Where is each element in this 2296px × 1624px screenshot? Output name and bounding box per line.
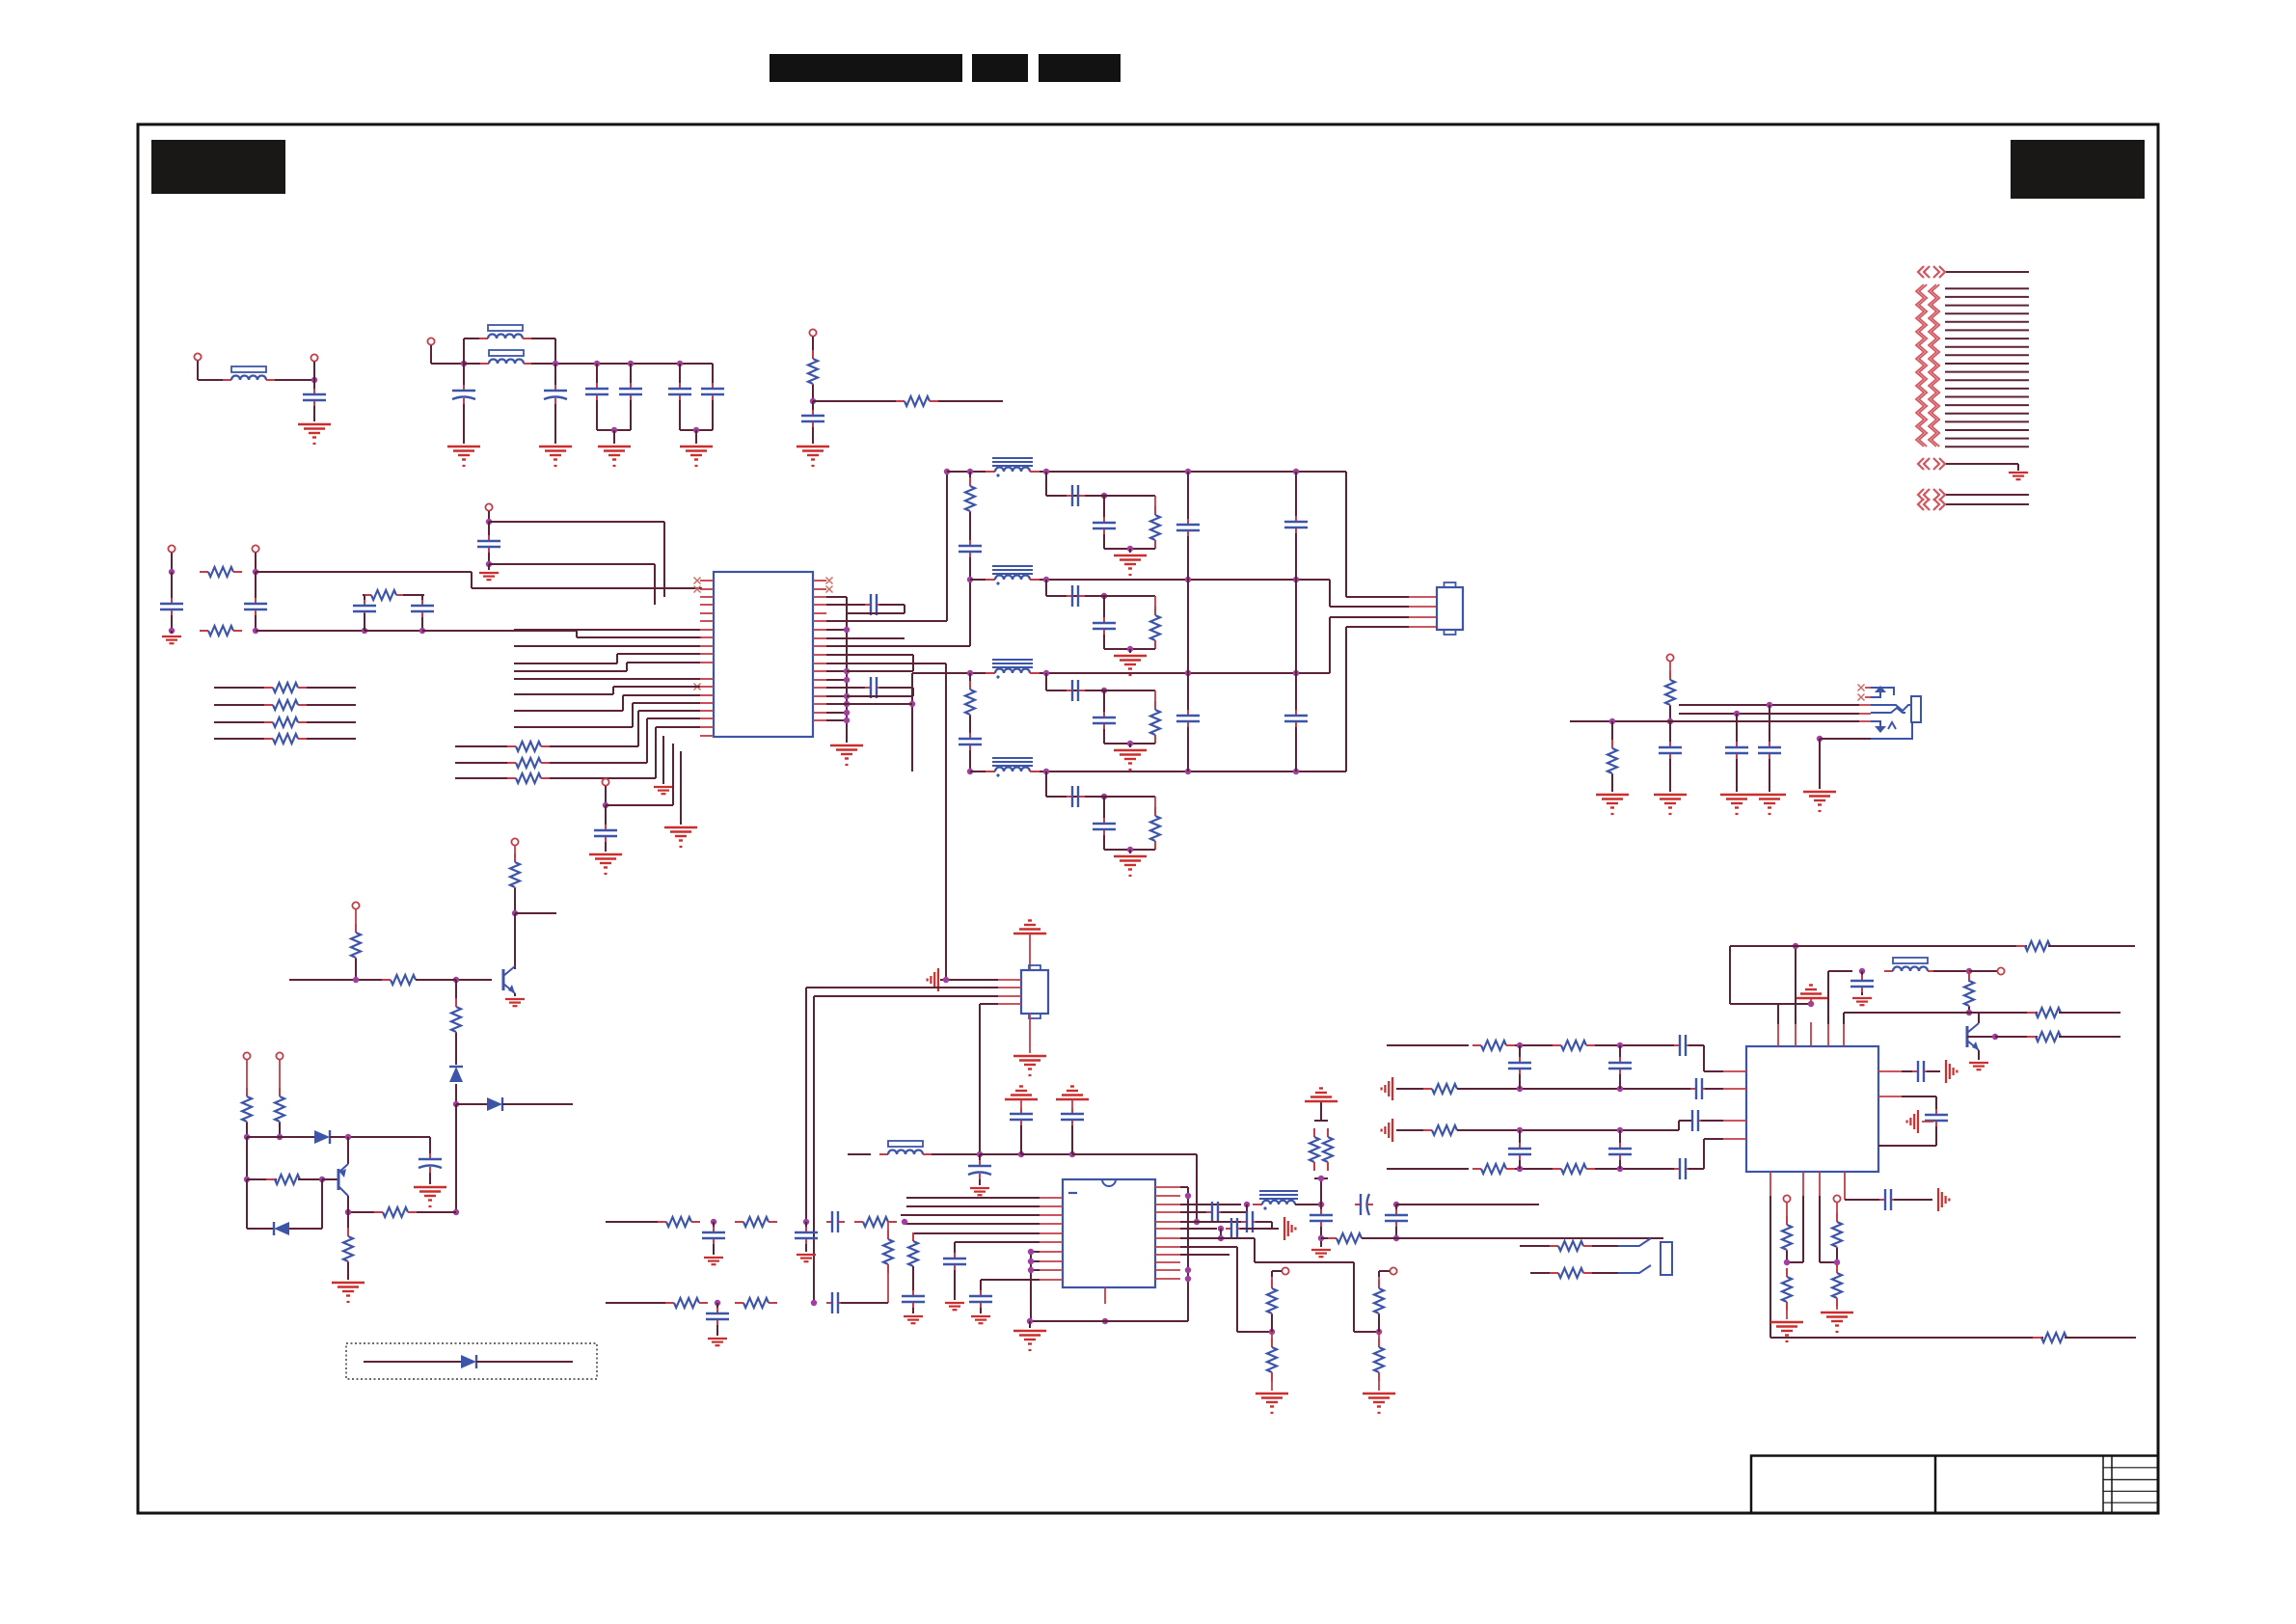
pin (700, 726, 714, 728)
pin (813, 719, 826, 721)
pin (1155, 1269, 1180, 1271)
resistor R57 (2033, 1337, 2041, 1339)
wire (1129, 549, 1131, 553)
ground (162, 636, 181, 637)
dotted option box (346, 1343, 597, 1379)
bus ripple column 1 (1916, 284, 1924, 447)
wire (1703, 1139, 1705, 1169)
node (461, 361, 467, 366)
wire (713, 1244, 715, 1255)
pin (1723, 1088, 1746, 1090)
ground (2009, 472, 2028, 474)
ground (1720, 794, 1753, 796)
wire (613, 430, 615, 444)
wire (455, 980, 457, 1006)
IC U2 (1063, 1179, 1155, 1287)
pin (700, 717, 714, 719)
jack J2 contact 2 (1618, 1265, 1651, 1273)
node (1817, 736, 1823, 742)
node (1793, 943, 1798, 949)
node (1767, 702, 1772, 708)
node (711, 1219, 716, 1225)
node (967, 769, 973, 774)
jack J1 switch contact 3 (1871, 721, 1880, 726)
wire (1320, 1204, 1322, 1209)
wire (637, 711, 639, 746)
resistor R33 (912, 1232, 914, 1241)
wire (1103, 729, 1105, 744)
capacitor C22 (1103, 517, 1105, 523)
wire (805, 1244, 807, 1252)
pin (1155, 1211, 1180, 1213)
capacitor C54 (1619, 1143, 1621, 1149)
pin (813, 629, 826, 631)
wire (1254, 1238, 1256, 1262)
node (1966, 968, 1972, 974)
node (1185, 1193, 1191, 1199)
wire (1103, 496, 1105, 517)
pin (998, 979, 1021, 981)
capacitor C14 (605, 825, 607, 830)
ground (598, 446, 631, 447)
resistor R31 (735, 1221, 743, 1223)
terminal P6 (168, 545, 175, 552)
wire (1703, 1045, 1705, 1071)
wire (981, 1279, 1040, 1281)
wire (695, 430, 697, 444)
wire (980, 1003, 998, 1005)
resistor R38 (1313, 1128, 1315, 1137)
capacitor C39 (716, 1308, 718, 1313)
capacitor C17 (969, 540, 971, 546)
jack J1 switch contact 4 (1888, 722, 1896, 729)
pin (1409, 616, 1437, 618)
wire (2017, 464, 2019, 471)
wire (422, 630, 577, 632)
wire (1271, 1314, 1273, 1332)
ground (539, 446, 572, 447)
off-page connector C (1918, 489, 1924, 501)
wire (1154, 841, 1156, 850)
pin (1155, 1237, 1180, 1239)
resistor R36 (1271, 1280, 1273, 1288)
wire (1330, 616, 1409, 618)
node (967, 577, 973, 582)
pin (700, 678, 714, 680)
ground (1013, 1055, 1046, 1057)
node (844, 717, 850, 723)
terminal P2 (311, 354, 317, 361)
capacitor C4 (596, 383, 598, 389)
wire (938, 400, 1003, 402)
wire (1031, 1251, 1040, 1253)
pin (1155, 1221, 1180, 1223)
pin (1409, 596, 1437, 598)
node (486, 561, 492, 567)
resistor R49 (1423, 1088, 1432, 1090)
capacitor C45 (1395, 1209, 1397, 1215)
wire (1354, 1331, 1379, 1333)
resistor R38 pair (1314, 1120, 1328, 1122)
node (1102, 1318, 1108, 1324)
wire (1669, 759, 1671, 792)
node (1101, 593, 1107, 599)
ground (1770, 1321, 1803, 1323)
wire (812, 337, 814, 358)
node (253, 628, 258, 634)
capacitor C21 (1067, 495, 1072, 497)
node (1293, 469, 1299, 474)
ground (904, 1315, 923, 1317)
wire (255, 553, 257, 572)
wire to U1 (656, 726, 700, 728)
capacitor C34 (826, 1221, 832, 1223)
wire (1095, 690, 1155, 691)
pin (813, 663, 826, 664)
resistor R27 (1154, 807, 1156, 816)
wire (847, 612, 905, 614)
wire (1095, 595, 1155, 597)
wire (1861, 971, 1863, 976)
ground (1391, 1077, 1393, 1100)
wire (1154, 797, 1156, 816)
wire (463, 404, 465, 444)
capacitor C20 (1295, 710, 1297, 716)
node (1018, 1151, 1024, 1157)
ground (298, 423, 331, 425)
wire (612, 687, 614, 694)
bus wire 20 (1945, 446, 2029, 447)
wire (255, 615, 257, 631)
pin (1155, 1261, 1180, 1263)
pin (813, 612, 826, 614)
resistor R32 (854, 1221, 863, 1223)
wire (1320, 1178, 1322, 1204)
wire (1129, 850, 1131, 853)
wire (680, 429, 713, 431)
wire (1180, 1221, 1244, 1223)
wire (429, 1137, 431, 1154)
wire (646, 718, 648, 763)
wire to U1 (514, 645, 700, 647)
terminal P4 (809, 329, 816, 336)
capacitor C30 (1020, 1108, 1022, 1114)
terminal P11 (1833, 1195, 1840, 1202)
wire (171, 553, 173, 572)
wire (279, 1123, 281, 1137)
wire (1669, 662, 1671, 679)
resistor R2 (896, 400, 905, 402)
wire (1844, 1012, 1969, 1014)
resistor R58 (1669, 671, 1671, 680)
ground (1114, 655, 1147, 657)
wire (716, 1303, 718, 1308)
node (453, 977, 459, 983)
terminal P12 (1666, 654, 1673, 661)
wire (1395, 1227, 1397, 1238)
ground (1005, 1098, 1038, 1100)
wire (1104, 849, 1155, 851)
resistor R68 (347, 1228, 349, 1236)
resistor R41 (1550, 1245, 1558, 1247)
resistor R45 (2027, 1012, 2036, 1014)
wire (1220, 1229, 1222, 1238)
pin (1155, 1186, 1180, 1188)
bus wire (1946, 494, 2029, 496)
jack J1 switch contact 2 (1871, 692, 1880, 697)
capacitor C19 (969, 733, 971, 739)
wire to U1 (654, 564, 656, 605)
wire (1688, 1168, 1704, 1170)
wire (1786, 1251, 1788, 1262)
wire to CN3 (945, 663, 947, 980)
pin (1155, 1204, 1180, 1205)
ground (1821, 1312, 1853, 1313)
pin (813, 588, 826, 590)
capacitor C37 (912, 1290, 914, 1296)
wire (911, 673, 913, 771)
wire (307, 704, 356, 706)
wire (464, 363, 481, 365)
capacitor C58 (1669, 742, 1671, 747)
wire (616, 654, 618, 663)
jack J1 tip contact (1871, 705, 1911, 711)
wire (812, 427, 814, 444)
transistor Q1 (502, 969, 505, 990)
resistor R51 (1472, 1168, 1481, 1170)
bus wire 13 (1945, 388, 2029, 390)
node (486, 519, 492, 525)
node (1966, 1010, 1972, 1015)
wire (1040, 771, 1346, 772)
wire (1978, 1050, 1980, 1060)
pin (813, 604, 826, 606)
capacitor C59 (1769, 742, 1770, 747)
wire (1246, 1204, 1248, 1212)
ground (1311, 1249, 1331, 1251)
wire (1180, 1254, 1229, 1256)
wire (1320, 1227, 1322, 1247)
node (253, 569, 258, 575)
capacitor C13 (421, 600, 423, 606)
capacitor C53 (1519, 1143, 1521, 1149)
no-connect (1858, 685, 1865, 691)
wire (1154, 496, 1156, 515)
wire (514, 913, 516, 967)
capacitor C27 (1067, 796, 1072, 798)
wire to U1 (663, 522, 665, 597)
node (1784, 1259, 1790, 1265)
resistor R56 (1836, 1264, 1838, 1273)
ground (830, 744, 863, 746)
pin (1040, 1223, 1063, 1225)
wire (1570, 720, 1670, 722)
wire (1154, 690, 1156, 710)
wire (514, 726, 633, 728)
node (1734, 711, 1740, 717)
inductor L5 (1884, 970, 1893, 972)
resistor R42 (1550, 1272, 1558, 1274)
resistor R47 (1472, 1044, 1481, 1046)
wire (1679, 713, 1859, 715)
wire (1396, 1237, 1663, 1239)
resistor R66 (279, 1088, 281, 1096)
pin (700, 636, 714, 638)
node (1043, 769, 1049, 774)
wire (947, 471, 986, 473)
wire (597, 429, 631, 431)
wire (906, 1197, 1040, 1199)
resistor R10 (507, 745, 516, 747)
pin (1040, 1269, 1063, 1271)
wire (531, 363, 713, 365)
bus wire 1 (1945, 287, 2029, 289)
wire (622, 695, 624, 711)
wire (456, 979, 492, 981)
wire (912, 1308, 914, 1313)
wire (307, 721, 356, 723)
ground (1114, 555, 1147, 556)
wire (826, 703, 847, 705)
pin (1878, 1145, 1902, 1147)
no-connect (1858, 694, 1865, 701)
resistor R23 (1154, 607, 1156, 615)
ground (1283, 1217, 1285, 1240)
node (1617, 1166, 1623, 1172)
wire (954, 1242, 956, 1253)
resistor R63 (455, 998, 457, 1007)
wire (912, 1233, 914, 1241)
wire (1295, 1204, 1321, 1205)
bus wire 17 (1945, 420, 2029, 422)
bus wire 7 (1945, 338, 2029, 339)
wire (1329, 580, 1331, 607)
wire (554, 338, 556, 364)
wire (1519, 1130, 1521, 1143)
wire (1922, 1121, 1933, 1123)
wire (812, 401, 814, 412)
wire (1154, 640, 1156, 649)
wire to U1 (623, 694, 700, 696)
schematic frame (138, 124, 2158, 1513)
pin (1810, 1022, 1812, 1046)
wire (1362, 1237, 1396, 1239)
bus trunk (1187, 1187, 1189, 1321)
wire (1030, 1320, 1188, 1322)
wire (554, 404, 556, 444)
node (628, 361, 634, 366)
wire (826, 604, 868, 606)
node (1127, 847, 1133, 853)
node (1609, 718, 1615, 724)
pin (700, 645, 714, 647)
wire (1031, 1260, 1040, 1262)
wire (1095, 495, 1155, 497)
resistor R50 (1423, 1129, 1432, 1131)
wire (1619, 1130, 1621, 1143)
resistor R60 (514, 853, 516, 862)
wire (1046, 796, 1095, 798)
pin (1795, 1022, 1796, 1046)
inductor L4 (879, 1153, 888, 1155)
wire (1104, 743, 1155, 744)
resistor R52 (1553, 1168, 1561, 1170)
wire (455, 1104, 457, 1212)
wire (1935, 1126, 1937, 1146)
wire (515, 912, 556, 914)
ground (1852, 997, 1872, 999)
wire (1378, 1332, 1380, 1347)
pin (1827, 1022, 1829, 1046)
node (803, 1219, 809, 1225)
wire (1180, 1246, 1237, 1248)
wire (1129, 649, 1131, 653)
jack J1 sleeve wire (1871, 722, 1912, 739)
pin (1040, 1205, 1063, 1207)
wire (672, 744, 674, 805)
wire to U1 (633, 702, 700, 704)
wire (348, 1211, 374, 1213)
wire (1730, 1003, 1811, 1005)
wire (887, 1264, 889, 1303)
node (1293, 577, 1299, 582)
bus wire (1946, 463, 2018, 465)
wire (1329, 617, 1331, 673)
wire (214, 704, 264, 706)
node (1127, 546, 1133, 552)
wire (1040, 471, 1346, 473)
ground (1013, 1330, 1046, 1332)
resistor R48 (1553, 1044, 1561, 1046)
wire (298, 1178, 322, 1180)
wire (289, 979, 382, 981)
resistor R40 (1328, 1237, 1337, 1239)
capacitor C51 (1687, 1120, 1692, 1122)
ground (945, 1302, 964, 1304)
bus ripple column 2 (1929, 284, 1936, 447)
wire (1221, 1237, 1255, 1239)
wire (662, 736, 664, 784)
bus wire 11 (1945, 371, 2029, 373)
wire (879, 604, 905, 606)
transformer T4 (986, 771, 995, 772)
wire (1345, 627, 1347, 771)
wire to T1 (946, 473, 948, 621)
pin (1155, 1228, 1180, 1230)
node (1318, 1176, 1324, 1181)
pin (1843, 1022, 1845, 1046)
wire (847, 695, 913, 697)
wire (632, 703, 634, 727)
resistor R13 (969, 477, 971, 486)
wire (430, 345, 432, 364)
wire to U1 (627, 662, 700, 663)
wire (355, 959, 357, 980)
terminal P3 (427, 338, 434, 344)
bus wire 6 (1945, 329, 2029, 331)
wire (1378, 1271, 1380, 1277)
IC U2 notch (1102, 1179, 1116, 1186)
node (1808, 1001, 1814, 1007)
pin (998, 995, 1021, 997)
wire (1777, 1004, 1779, 1024)
wire (1810, 998, 1812, 1004)
pin (700, 620, 714, 622)
resistor R55 (1836, 1213, 1838, 1222)
resistor R4 (200, 630, 208, 632)
capacitor C46 (1861, 975, 1863, 981)
wire (1031, 1269, 1040, 1271)
